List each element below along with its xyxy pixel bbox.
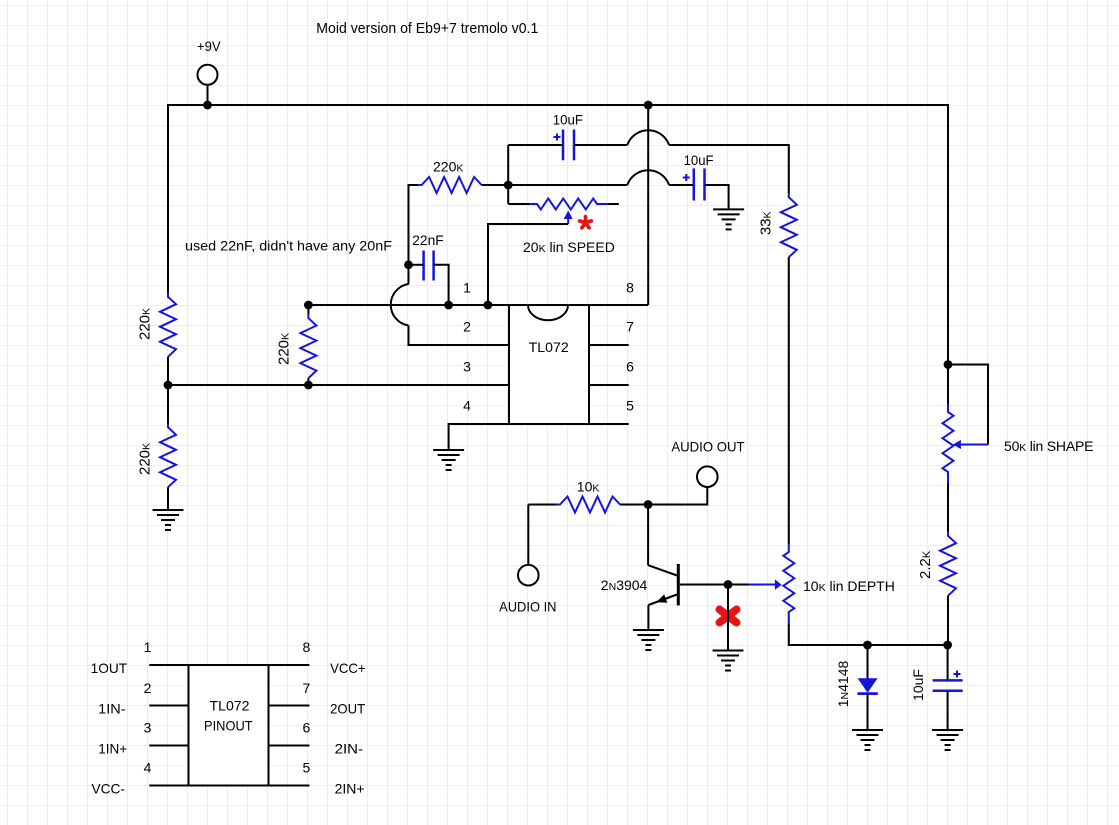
- wire 10K right lead: [620, 504, 648, 506]
- wire pin 4 to ground: [449, 424, 509, 450]
- pinout wire row3 left: [149, 745, 188, 747]
- transistor Q1 base bar: [677, 564, 680, 605]
- svg-text:PINOUT: PINOUT: [204, 717, 253, 733]
- wire DEPTH bottom to node row: [789, 624, 948, 646]
- svg-text:3: 3: [144, 720, 152, 736]
- wire osc row to hop: [508, 184, 627, 186]
- resistor 10K: [557, 497, 621, 513]
- svg-text:7: 7: [626, 319, 634, 335]
- wire pin1 net: [308, 304, 509, 306]
- capacitor C3 plate bottom: [933, 689, 963, 692]
- ground C2: [713, 208, 744, 210]
- wire pin 5 stub: [589, 423, 629, 425]
- wire hop over pin1 net: [391, 284, 409, 326]
- ground unused below X: [713, 650, 744, 652]
- junction 220K-mid top on pin1 net: [304, 301, 313, 310]
- pinout wire row2 right: [269, 705, 310, 707]
- wire right rail drop: [947, 104, 949, 365]
- svg-text:10uF: 10uF: [553, 112, 583, 128]
- ground emitter: [633, 629, 664, 631]
- svg-text:used 22nF, didn't have any 20n: used 22nF, didn't have any 20nF: [185, 238, 392, 254]
- svg-text:VCC-: VCC-: [92, 781, 126, 797]
- potentiometer SPEED right lead: [609, 203, 619, 205]
- resistor 220K upper-left: [160, 293, 176, 357]
- junction C1/220K/pot node: [504, 181, 513, 190]
- svg-text:AUDIO OUT: AUDIO OUT: [671, 439, 745, 455]
- transistor Q1 collector lead: [648, 565, 677, 575]
- wire audio out to collector node: [648, 487, 707, 505]
- wire diode top lead: [867, 645, 869, 679]
- wire C1 to 33K: [669, 145, 789, 194]
- potentiometer SHAPE wiper arrow: [953, 440, 961, 449]
- resistor 33K: [781, 194, 797, 257]
- wire 220K feedback left lead: [409, 184, 419, 186]
- pinout box TL072: [189, 665, 269, 786]
- potentiometer SPEED left lead: [508, 203, 529, 205]
- svg-text:10K lin DEPTH: 10K lin DEPTH: [803, 578, 895, 594]
- marker red asterisk: [584, 217, 588, 223]
- wire audio in riser: [527, 505, 529, 566]
- capacitor 22nF plate left: [422, 251, 425, 281]
- junction cap C3 node: [943, 641, 952, 650]
- svg-text:3: 3: [463, 359, 471, 375]
- svg-text:2IN-: 2IN-: [335, 741, 364, 757]
- svg-text:TL072: TL072: [529, 339, 569, 355]
- op-amp U1 notch: [528, 305, 568, 320]
- potentiometer SHAPE wiper lead: [961, 444, 988, 446]
- wire left rail upper: [167, 104, 169, 293]
- svg-text:220K: 220K: [137, 308, 154, 340]
- wire 50K wiper loop: [948, 365, 988, 445]
- svg-text:Moid version of Eb9+7 tremolo: Moid version of Eb9+7 tremolo v0.1: [316, 21, 538, 37]
- svg-text:2IN+: 2IN+: [335, 781, 365, 797]
- wire C1 left lead: [508, 144, 563, 146]
- wire collector drop: [647, 505, 649, 566]
- wire C2 to ground: [705, 185, 729, 209]
- ground left rail: [153, 509, 184, 511]
- wire hop to C2: [669, 184, 694, 186]
- capacitor C1 plate right: [573, 130, 576, 161]
- svg-text:+9V: +9V: [197, 38, 221, 54]
- marker red X: [720, 610, 737, 623]
- wire pin8 drop vertical: [647, 105, 649, 305]
- svg-text:5: 5: [626, 398, 634, 414]
- wire C3 top lead: [947, 645, 949, 680]
- wire pin 8 stub: [589, 304, 648, 306]
- wire 33K to DEPTH pot: [788, 257, 790, 544]
- svg-text:TL072: TL072: [210, 698, 250, 714]
- wire +9V terminal to top rail: [207, 85, 209, 105]
- svg-text:5: 5: [303, 760, 311, 776]
- svg-text:4: 4: [463, 398, 471, 414]
- svg-text:10uF: 10uF: [684, 152, 714, 168]
- wire 2.2K to bottom node: [947, 596, 949, 645]
- svg-text:6: 6: [626, 359, 634, 375]
- svg-text:33K: 33K: [758, 211, 775, 235]
- capacitor C2 plate right: [703, 168, 706, 200]
- svg-text:2OUT: 2OUT: [330, 701, 365, 717]
- junction 22nF branch on pin1 net: [444, 301, 453, 310]
- potentiometer 50K SHAPE body: [943, 404, 954, 484]
- wire 220K middle top lead: [307, 305, 309, 315]
- wire 50K to 2.2K: [947, 484, 949, 533]
- wire pin 7 stub: [589, 344, 629, 346]
- svg-text:1OUT: 1OUT: [91, 660, 128, 676]
- wire 22nF right lead: [434, 265, 449, 305]
- wire 220K lower-left to ground: [167, 487, 169, 510]
- svg-text:10K: 10K: [577, 479, 600, 495]
- transistor Q1 emitter arrow: [656, 594, 667, 602]
- diode D1 cathode bar: [857, 692, 877, 695]
- pinout wire row2 left: [149, 705, 188, 707]
- capacitor 22nF plate right: [432, 251, 435, 281]
- potentiometer 20K SPEED body: [529, 199, 609, 210]
- svg-text:220K: 220K: [137, 443, 154, 475]
- svg-text:50K lin SHAPE: 50K lin SHAPE: [1004, 438, 1093, 454]
- capacitor C3 plus: [954, 673, 961, 675]
- wire C1 left vertical: [507, 145, 509, 204]
- wire top supply rail: [168, 104, 948, 106]
- svg-text:7: 7: [303, 680, 311, 696]
- wire hop osc row over drop: [627, 170, 669, 185]
- capacitor C2 plus: [683, 177, 690, 179]
- svg-text:2: 2: [144, 680, 152, 696]
- junction +9V on top rail: [203, 101, 212, 110]
- svg-text:22nF: 22nF: [412, 232, 443, 248]
- junction base node: [724, 580, 733, 589]
- wire 50K top lead: [947, 365, 949, 405]
- junction diode node: [863, 641, 872, 650]
- junction 220K-mid bottom: [304, 381, 313, 390]
- potentiometer SPEED wiper arrow: [564, 211, 573, 220]
- wire 220K middle bottom lead: [307, 378, 309, 385]
- wire hop C1 over drop: [627, 130, 669, 145]
- wire 220K to pin3 node: [167, 357, 169, 385]
- wire 10K left lead: [528, 504, 556, 506]
- svg-text:10uF: 10uF: [910, 669, 926, 701]
- svg-text:8: 8: [626, 279, 634, 295]
- terminal AUDIO IN circle: [518, 565, 539, 586]
- junction top rail to pin8 drop: [644, 101, 653, 110]
- svg-text:1IN+: 1IN+: [98, 741, 127, 757]
- capacitor C2 plate left: [693, 168, 696, 200]
- junction 22nF node: [404, 260, 413, 269]
- wire base to depth node: [680, 584, 749, 586]
- junction 50K top node: [944, 360, 953, 369]
- svg-text:220K: 220K: [433, 159, 463, 175]
- svg-text:1IN-: 1IN-: [98, 701, 126, 717]
- svg-text:8: 8: [303, 639, 311, 655]
- svg-text:1: 1: [463, 279, 471, 295]
- svg-text:VCC+: VCC+: [330, 660, 366, 676]
- resistor 220K feedback: [418, 177, 482, 193]
- wire 22nF left lead: [409, 264, 424, 266]
- potentiometer DEPTH wiper arrow: [775, 579, 782, 590]
- resistor 2.2K: [940, 532, 956, 596]
- svg-text:4: 4: [144, 760, 152, 776]
- wire emitter to ground: [647, 605, 649, 630]
- svg-text:2N3904: 2N3904: [601, 577, 648, 593]
- resistor 220K lower-left: [160, 424, 176, 487]
- svg-text:1: 1: [144, 639, 152, 655]
- wire C1 right lead: [574, 144, 627, 146]
- wire hop to pin2: [409, 326, 510, 346]
- junction left rail pin3 wire: [164, 381, 173, 390]
- resistor 220K middle: [300, 315, 316, 379]
- wire C3 to ground: [947, 691, 949, 730]
- svg-text:220K: 220K: [276, 333, 293, 365]
- power terminal +9V circle: [198, 65, 218, 85]
- junction collector node: [644, 500, 653, 509]
- pinout wire row1: [149, 664, 309, 666]
- transistor Q1 emitter lead: [648, 595, 677, 606]
- svg-text:1N4148: 1N4148: [835, 661, 851, 708]
- wire 22nF node down to hop: [408, 265, 410, 285]
- wire pin3 net: [168, 384, 509, 386]
- wire 220K feedback right lead: [482, 184, 509, 186]
- potentiometer 10K DEPTH body: [783, 544, 794, 624]
- pinout wire row3 right: [269, 745, 310, 747]
- ground C3: [932, 729, 963, 731]
- wire left rail lower: [167, 385, 169, 424]
- wire 220K feedback left lead down: [408, 184, 410, 265]
- svg-text:20K lin SPEED: 20K lin SPEED: [523, 239, 615, 255]
- svg-text:2.2K: 2.2K: [917, 550, 934, 579]
- wire diode to ground: [867, 694, 869, 730]
- wire pin 6 stub: [589, 384, 629, 386]
- junction wiper branch on pin1 net: [484, 301, 493, 310]
- wire unused ground drop: [727, 585, 729, 651]
- op-amp U1 TL072 body: [509, 305, 589, 424]
- wire wiper to pin1 net: [488, 224, 568, 305]
- ground pin 4: [433, 449, 464, 451]
- capacitor C1 plate left: [562, 130, 565, 161]
- potentiometer DEPTH wiper lead: [749, 584, 776, 586]
- diode D1 1N4148 triangle: [858, 678, 878, 693]
- capacitor C1 plus: [554, 136, 561, 138]
- svg-text:2: 2: [463, 319, 471, 335]
- pinout wire row4: [149, 785, 309, 787]
- capacitor C3 plate top: [933, 679, 963, 682]
- svg-text:AUDIO IN: AUDIO IN: [499, 599, 556, 615]
- svg-text:6: 6: [303, 720, 311, 736]
- ground diode: [852, 729, 883, 731]
- terminal AUDIO OUT circle: [697, 466, 718, 487]
